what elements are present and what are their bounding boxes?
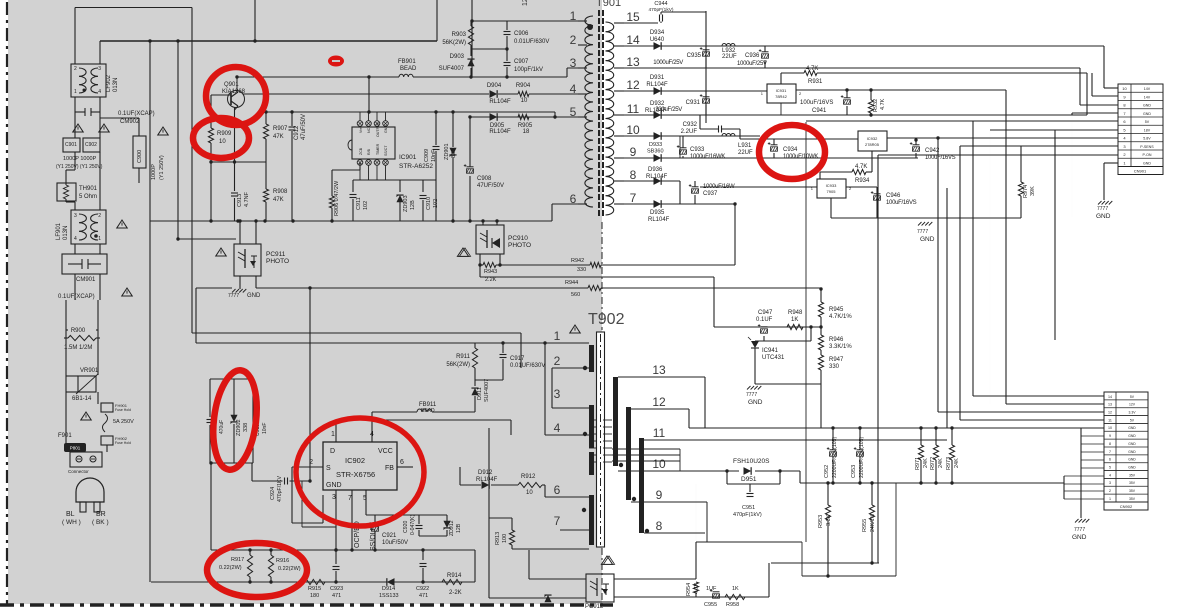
capacitor C932 2.2UF xyxy=(718,126,720,133)
svg-text:2: 2 xyxy=(309,459,313,466)
svg-text:CN902: CN902 xyxy=(1120,504,1133,509)
wire Q901 base xyxy=(211,94,231,96)
diode D933 SB360 xyxy=(654,154,662,162)
wire vertical buses down to CN902 xyxy=(972,121,974,396)
svg-text:5V: 5V xyxy=(1145,120,1150,124)
ground GND secondary xyxy=(918,222,922,226)
svg-text:10: 10 xyxy=(626,123,640,137)
warning triangle xyxy=(73,124,84,132)
svg-text:Fuse Hold: Fuse Hold xyxy=(115,408,131,412)
svg-text:470pF/1KV: 470pF/1KV xyxy=(277,476,283,502)
transformer T902 primary winding bars xyxy=(589,345,594,372)
svg-text:C913: C913 xyxy=(237,194,243,207)
svg-text:R954: R954 xyxy=(686,583,692,596)
warning triangle xyxy=(81,412,92,420)
wire 14V drop to CN901 pin10 xyxy=(1103,46,1105,88)
svg-text:8: 8 xyxy=(630,168,637,182)
svg-text:R912: R912 xyxy=(521,474,536,480)
svg-text:GND: GND xyxy=(1128,466,1136,470)
svg-text:7: 7 xyxy=(630,191,637,205)
wire pin12 rail xyxy=(624,90,767,92)
wire R911 feed rail xyxy=(474,343,476,348)
wire pin11 rail xyxy=(624,114,1087,116)
svg-text:12: 12 xyxy=(1108,411,1112,415)
svg-text:C909: C909 xyxy=(424,149,430,162)
resistor R958 1K xyxy=(725,594,745,599)
svg-text:4.7NF: 4.7NF xyxy=(244,191,250,207)
svg-text:GND: GND xyxy=(1128,426,1136,430)
wire IC901 bottom pin bus xyxy=(353,179,436,181)
wire top feed xyxy=(75,7,192,9)
svg-text:13: 13 xyxy=(652,363,666,377)
wire primary ground rail y221 xyxy=(150,220,552,222)
svg-text:4: 4 xyxy=(370,431,374,438)
resistor R953 3.3K xyxy=(827,483,829,505)
wire pin9 link xyxy=(1092,95,1118,97)
capacitor C922 471 xyxy=(422,550,424,560)
svg-text:35V: 35V xyxy=(1129,473,1136,477)
wire long vertical x489 xyxy=(488,428,490,598)
ferrite bead FB911 BEAD xyxy=(372,411,417,413)
svg-text:2200UF/50V(105): 2200UF/50V(105) xyxy=(832,436,838,478)
svg-text:S: S xyxy=(326,465,331,472)
resistor R908 47K xyxy=(263,189,268,202)
transformer T901 primary pins xyxy=(578,20,587,22)
svg-text:10nF: 10nF xyxy=(431,149,437,162)
svg-text:6: 6 xyxy=(554,483,561,497)
transformer T902 core xyxy=(597,332,605,547)
resistor R931 4.7K xyxy=(780,73,782,84)
wire 35V rail xyxy=(800,482,1064,484)
svg-text:Q901: Q901 xyxy=(224,82,239,88)
svg-text:R947: R947 xyxy=(829,357,844,363)
svg-text:OUTPUT: OUTPUT xyxy=(376,121,380,137)
wire IC932 input y139 xyxy=(740,138,858,140)
svg-text:D: D xyxy=(330,448,335,455)
svg-text:24K: 24K xyxy=(938,458,944,468)
svg-text:12V: 12V xyxy=(1129,403,1136,407)
svg-text:12: 12 xyxy=(652,395,666,409)
capacitor C923 471 xyxy=(335,550,337,564)
svg-text:1000P: 1000P xyxy=(151,164,157,180)
svg-text:78R42: 78R42 xyxy=(775,94,788,99)
svg-text:24K: 24K xyxy=(954,458,960,468)
opto-coupler PC911 PHOTO xyxy=(234,244,261,276)
line-filter LF901 013N xyxy=(71,210,106,244)
wire feedback mid y277 xyxy=(480,276,714,278)
diode D904 RL104F + resistor R904 10 xyxy=(243,93,489,95)
wire base divider vertical xyxy=(210,95,212,128)
svg-text:3.3K/1%: 3.3K/1% xyxy=(829,344,852,350)
wire pin8 link xyxy=(1079,68,1081,105)
resistor R955 24K/1% xyxy=(871,483,873,505)
wire emitter leg xyxy=(234,107,236,162)
resistor R948 1K xyxy=(787,324,803,329)
svg-text:1: 1 xyxy=(98,236,101,242)
svg-text:R916: R916 xyxy=(276,558,289,564)
svg-text:R971: R971 xyxy=(915,457,921,470)
red annotation ellipse R909 xyxy=(193,118,249,158)
svg-text:6: 6 xyxy=(1109,458,1111,462)
transformer T901 core xyxy=(598,10,600,218)
wire mid rail y550 xyxy=(211,549,475,551)
svg-text:RL104F: RL104F xyxy=(489,129,511,135)
svg-text:4: 4 xyxy=(570,82,577,96)
svg-text:1UF: 1UF xyxy=(706,586,717,592)
svg-text:SS/OLP: SS/OLP xyxy=(370,525,377,551)
svg-text:0-047(K): 0-047(K) xyxy=(410,515,416,535)
svg-text:R913: R913 xyxy=(495,532,501,545)
svg-text:3: 3 xyxy=(1109,481,1111,485)
svg-text:14V: 14V xyxy=(1144,95,1151,99)
svg-text:9: 9 xyxy=(630,145,637,159)
svg-text:R906 0.47/2W: R906 0.47/2W xyxy=(334,180,340,216)
ground GND at CN901 xyxy=(1098,201,1102,205)
svg-text:10: 10 xyxy=(219,139,226,145)
svg-text:10: 10 xyxy=(652,457,666,471)
dash-dot gray boundary below T901 / above-below T902 xyxy=(601,222,603,330)
fuse F901 5A 250V xyxy=(103,414,108,432)
dash-dot page border left xyxy=(6,2,8,604)
svg-text:GND: GND xyxy=(1128,442,1136,446)
svg-text:4.7K: 4.7K xyxy=(694,582,700,594)
resistor R946 3.3K/1% xyxy=(818,335,823,350)
svg-text:2-2K: 2-2K xyxy=(449,590,462,596)
warning triangle xyxy=(601,556,612,564)
svg-text:100pF/1kV: 100pF/1kV xyxy=(514,67,543,73)
svg-text:UTC431: UTC431 xyxy=(762,355,785,361)
wire PC912 right to R954 xyxy=(614,578,696,580)
svg-text:SS/CT: SS/CT xyxy=(384,145,388,156)
svg-text:ZD901: ZD901 xyxy=(444,143,450,160)
diode D903 SUF4007 xyxy=(470,49,472,56)
svg-text:NC: NC xyxy=(367,127,371,133)
svg-text:D933: D933 xyxy=(649,142,662,148)
svg-text:C908: C908 xyxy=(477,176,492,182)
svg-text:3: 3 xyxy=(74,213,77,219)
red annotation ellipse C934 xyxy=(759,125,825,179)
svg-text:SUF4007: SUF4007 xyxy=(439,66,465,72)
svg-text:7: 7 xyxy=(1109,450,1111,454)
inductor L931 22UF xyxy=(722,133,735,136)
svg-text:R948: R948 xyxy=(788,310,803,316)
svg-text:C953: C953 xyxy=(851,465,857,478)
svg-text:35V: 35V xyxy=(1129,497,1136,501)
svg-text:1: 1 xyxy=(554,329,561,343)
svg-text:6B1-14: 6B1-14 xyxy=(72,396,92,402)
wire to vertical x769 xyxy=(768,563,770,597)
svg-text:2: 2 xyxy=(1109,489,1111,493)
svg-text:D931: D931 xyxy=(650,75,665,81)
svg-text:1: 1 xyxy=(570,9,577,23)
svg-text:( BK ): ( BK ) xyxy=(92,519,109,526)
svg-text:IC933: IC933 xyxy=(826,183,837,188)
wire pin15 rail xyxy=(624,22,658,24)
svg-text:12B: 12B xyxy=(410,200,416,210)
svg-text:D903: D903 xyxy=(450,54,465,60)
wire pin7 rail xyxy=(624,203,735,205)
svg-text:100uF/16VS: 100uF/16VS xyxy=(886,200,917,206)
capacitor C912 47uF/50V xyxy=(291,112,293,126)
transformer T901 secondary winding xyxy=(606,22,614,215)
svg-text:C932: C932 xyxy=(683,122,698,128)
capacitor C941 100uF/16VS xyxy=(844,97,851,99)
svg-text:330: 330 xyxy=(829,364,840,370)
wire CN902 pin10 GND rail xyxy=(689,427,1104,429)
op-amp IC902 STR-X6756 xyxy=(323,442,397,490)
svg-text:4: 4 xyxy=(74,236,77,242)
svg-text:RL104F: RL104F xyxy=(476,477,498,483)
svg-text:D911: D911 xyxy=(477,387,483,400)
svg-text:1.5M 1/2M: 1.5M 1/2M xyxy=(64,345,92,351)
diode D931 RL104F xyxy=(654,87,662,95)
wire 35V ladder to CN902 pins xyxy=(1063,476,1065,499)
svg-text:GND: GND xyxy=(920,236,935,243)
svg-text:GND: GND xyxy=(247,293,261,299)
svg-text:PC912: PC912 xyxy=(585,604,604,609)
red annotation ellipse Q901 xyxy=(206,67,266,125)
svg-text:2.2K: 2.2K xyxy=(485,277,497,283)
thermistor TH901 5 Ohm xyxy=(57,183,76,201)
svg-text:1K: 1K xyxy=(791,317,798,323)
svg-text:C937: C937 xyxy=(703,191,718,197)
red annotation ellipse ZD902 xyxy=(208,368,262,472)
svg-text:1000P 1000P: 1000P 1000P xyxy=(63,156,97,162)
capacitor C909 10nF xyxy=(435,112,437,145)
opto-coupler PC912 PHOTO xyxy=(586,574,614,602)
capacitor C917 0.01UF/630V xyxy=(502,343,504,353)
wire PC911 links xyxy=(239,221,241,244)
zener ZD902 338 (circled) xyxy=(210,378,253,380)
svg-text:0.22(2W): 0.22(2W) xyxy=(219,565,242,571)
svg-text:(Y1 250V) (Y1 250V): (Y1 250V) (Y1 250V) xyxy=(56,164,103,170)
zener ZD903 12B xyxy=(396,195,403,202)
wire FB to D912 row xyxy=(459,467,461,485)
resistor R906 0.47/2W xyxy=(332,169,360,171)
resistor R915 180 xyxy=(305,579,325,584)
fuse holder FH902 xyxy=(101,436,113,445)
svg-text:5: 5 xyxy=(363,495,367,502)
resistor R934 4.7K xyxy=(820,171,852,173)
svg-text:100uF/16VS: 100uF/16VS xyxy=(925,155,956,161)
wire bottom rail y582 xyxy=(151,581,475,583)
svg-text:0.1UF(XCAP): 0.1UF(XCAP) xyxy=(58,294,95,300)
svg-text:R908: R908 xyxy=(273,189,288,195)
svg-text:C924: C924 xyxy=(270,487,276,500)
svg-text:1SS133: 1SS133 xyxy=(379,593,399,599)
wire bus to CN901 pin6 (5V) xyxy=(806,120,1118,122)
capacitor CM902 0.1UF(XCAP) xyxy=(75,111,85,113)
svg-text:9: 9 xyxy=(1109,434,1111,438)
svg-text:CM902: CM902 xyxy=(120,119,140,125)
svg-text:C935: C935 xyxy=(687,53,702,59)
svg-text:330: 330 xyxy=(577,267,586,273)
svg-text:R903: R903 xyxy=(452,32,467,38)
warning triangle xyxy=(117,220,128,228)
svg-text:35V: 35V xyxy=(1129,489,1136,493)
zener ZD913 xyxy=(544,595,551,602)
svg-text:C907: C907 xyxy=(514,59,529,65)
svg-text:7777: 7777 xyxy=(746,392,757,398)
svg-text:100uF/16VS: 100uF/16VS xyxy=(800,100,833,106)
svg-text:C910: C910 xyxy=(426,197,432,210)
svg-text:C941: C941 xyxy=(812,108,827,114)
wire IC933 gnd bus xyxy=(830,198,832,218)
wire bus to CN901 pin4 (5.8V) xyxy=(938,137,1118,139)
transformer T902 pin stub marks xyxy=(603,419,612,421)
svg-text:013N: 013N xyxy=(63,226,69,240)
svg-text:IC932: IC932 xyxy=(867,136,878,141)
resistors R917 R916 0.22(2W) (circled) xyxy=(211,549,292,551)
wire IC902 bottom network xyxy=(366,514,447,516)
svg-text:GND: GND xyxy=(1128,458,1136,462)
diode D911 SUF4007 xyxy=(474,380,476,386)
svg-text:3: 3 xyxy=(332,494,336,501)
svg-text:471: 471 xyxy=(332,593,341,599)
svg-text:R907: R907 xyxy=(273,126,288,132)
svg-text:CM901: CM901 xyxy=(76,277,96,283)
svg-text:6: 6 xyxy=(400,459,404,466)
diode D935 RL104F xyxy=(654,200,662,208)
wire to T902 primary xyxy=(192,332,521,334)
capacitor CM901 0.1UF(XCAP) xyxy=(62,254,107,274)
regulator IC931 KIA7842 xyxy=(767,84,796,103)
snubber box C951 470pF(1kV) xyxy=(727,483,780,485)
zener ZD912 12B xyxy=(446,515,448,521)
svg-text:C934: C934 xyxy=(783,147,798,153)
svg-text:IC902: IC902 xyxy=(345,456,365,465)
svg-text:18V: 18V xyxy=(1144,128,1151,132)
svg-text:15: 15 xyxy=(626,10,640,24)
connector CN902 xyxy=(1104,392,1148,502)
svg-text:ZD902: ZD902 xyxy=(236,419,242,436)
wire LF902 pins xyxy=(74,8,76,65)
resistor R943 2.2K xyxy=(479,254,481,277)
svg-text:3.3V: 3.3V xyxy=(1129,411,1137,415)
svg-text:10: 10 xyxy=(1108,426,1112,430)
svg-text:10nF: 10nF xyxy=(262,423,268,434)
svg-text:0.01UF/630V: 0.01UF/630V xyxy=(514,39,549,45)
svg-text:338: 338 xyxy=(243,423,249,432)
svg-text:7: 7 xyxy=(348,495,352,502)
svg-text:5.8V: 5.8V xyxy=(1143,137,1151,141)
svg-text:C902: C902 xyxy=(85,142,97,148)
resistor R932 4.7K xyxy=(868,100,873,113)
wire pin11 rail xyxy=(644,439,947,441)
svg-text:14: 14 xyxy=(1108,395,1112,399)
svg-text:560: 560 xyxy=(571,292,580,298)
svg-text:D914: D914 xyxy=(382,586,395,592)
svg-text:8: 8 xyxy=(1109,442,1111,446)
svg-text:C931: C931 xyxy=(686,100,701,106)
capacitor C900 1000P Y1 250V xyxy=(133,136,146,168)
svg-text:47uF/50V: 47uF/50V xyxy=(301,114,307,140)
svg-text:47K: 47K xyxy=(273,197,284,203)
diode D936 RL104F xyxy=(654,177,662,185)
capacitor C942 100uF/16VS xyxy=(913,144,920,146)
svg-text:1000uF/10WK: 1000uF/10WK xyxy=(783,154,818,160)
capacitor C937 1000uF/16W xyxy=(692,186,699,188)
resistor R945 4.7K/1% xyxy=(820,289,822,302)
svg-text:F901: F901 xyxy=(58,433,72,439)
svg-text:T902: T902 xyxy=(588,311,625,328)
svg-text:KIA1268: KIA1268 xyxy=(222,89,246,95)
wire IC931 output xyxy=(796,89,1006,91)
svg-text:10: 10 xyxy=(521,98,528,104)
svg-text:4: 4 xyxy=(1109,473,1111,477)
svg-text:1000uF/16W: 1000uF/16W xyxy=(703,184,735,190)
svg-text:R931: R931 xyxy=(808,79,823,85)
svg-text:C951: C951 xyxy=(742,505,755,511)
capacitor C907 100pF/1kV xyxy=(506,49,508,61)
capacitor C936 1000uF/25V xyxy=(762,51,769,53)
capacitor C953 2200uF/50V(105) xyxy=(859,428,861,449)
capacitor C931 330uF/25V xyxy=(703,96,710,98)
svg-text:STR-A6252: STR-A6252 xyxy=(399,163,433,170)
svg-text:RL104F: RL104F xyxy=(648,217,670,223)
svg-text:12B: 12B xyxy=(456,523,462,533)
svg-text:Vref: Vref xyxy=(359,127,363,133)
wire pin6 return xyxy=(552,203,587,205)
wire pin7 link xyxy=(1071,113,1073,115)
diode on pin10 rail xyxy=(654,132,662,140)
svg-text:IC941: IC941 xyxy=(762,348,779,354)
svg-text:C911: C911 xyxy=(356,197,362,210)
svg-text:ZCB: ZCB xyxy=(359,147,363,155)
wire gnd link xyxy=(755,383,821,385)
resistor R911 56K(2W) xyxy=(472,348,477,368)
svg-text:VR901: VR901 xyxy=(80,368,99,374)
svg-text:11: 11 xyxy=(653,426,666,440)
diode D951 FSH10U20S xyxy=(744,467,752,475)
svg-text:180: 180 xyxy=(310,593,319,599)
svg-text:470pF(1kV): 470pF(1kV) xyxy=(648,7,673,13)
svg-text:1: 1 xyxy=(74,89,77,95)
svg-text:4.7K: 4.7K xyxy=(880,98,886,110)
svg-text:PC910: PC910 xyxy=(508,235,528,242)
capacitor C910 102 xyxy=(420,195,427,197)
svg-text:102: 102 xyxy=(363,201,369,210)
svg-text:10uF/50V: 10uF/50V xyxy=(382,540,408,546)
resistor R912 10 xyxy=(518,482,542,487)
svg-text:1000uF/25V: 1000uF/25V xyxy=(737,61,767,67)
svg-text:24K/1%: 24K/1% xyxy=(870,513,876,532)
transformer T901 phase dot xyxy=(587,24,593,30)
svg-text:R974: R974 xyxy=(1023,185,1029,198)
svg-text:D951: D951 xyxy=(741,476,757,483)
wire VCC vertical xyxy=(371,412,373,437)
connector FH001 xyxy=(70,452,102,467)
svg-text:5A 250V: 5A 250V xyxy=(113,419,134,425)
svg-text:2: 2 xyxy=(74,66,77,72)
svg-text:4.7K: 4.7K xyxy=(806,66,818,72)
svg-text:7: 7 xyxy=(554,514,561,528)
capacitor C901 1000P xyxy=(63,138,80,152)
svg-text:R932: R932 xyxy=(873,99,879,112)
svg-text:4.7K: 4.7K xyxy=(855,164,867,170)
svg-text:D934: D934 xyxy=(650,30,665,36)
svg-text:Fuse Hold: Fuse Hold xyxy=(115,441,131,445)
svg-text:R914: R914 xyxy=(447,573,462,579)
diode D912 RL104F xyxy=(482,481,490,489)
svg-text:C923: C923 xyxy=(330,586,343,592)
svg-text:PHOTO: PHOTO xyxy=(508,242,531,249)
svg-text:7777: 7777 xyxy=(1097,206,1108,212)
svg-text:D936: D936 xyxy=(648,167,663,173)
svg-text:3: 3 xyxy=(554,387,561,401)
svg-text:13: 13 xyxy=(1108,403,1112,407)
transformer T901 secondary pins xyxy=(614,22,624,24)
